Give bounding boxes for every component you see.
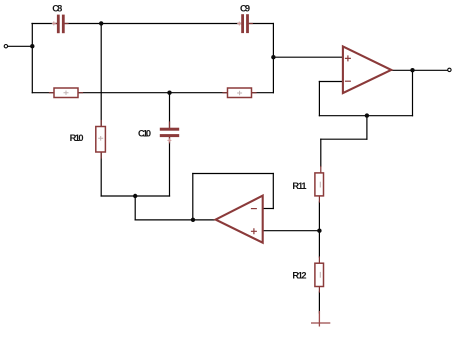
node lower rail C10 junction bbox=[167, 91, 171, 95]
wire U1 minus stub bbox=[319, 81, 343, 83]
wire left vertical rail bbox=[31, 24, 33, 93]
wire C10 rail lower bbox=[169, 137, 171, 196]
component pin leads bbox=[50, 24, 321, 293]
wire lower rail left segment bbox=[32, 92, 54, 94]
svg-text:R10: R10 bbox=[70, 133, 84, 143]
resistor R10 bbox=[96, 127, 106, 153]
node R11 R12 junction bbox=[317, 229, 321, 233]
wire branch down from node bbox=[134, 196, 136, 220]
op-amp U1 bbox=[343, 46, 391, 93]
resistor R (left horizontal) bbox=[54, 88, 78, 98]
wire branch left to R11 rail bbox=[321, 138, 367, 140]
wire R10 rail upper bbox=[100, 24, 102, 127]
wire lower rail middle segment bbox=[78, 92, 228, 94]
node U1 output junction bbox=[410, 68, 414, 72]
capacitor C10 bbox=[160, 128, 179, 143]
wire U2 feedback top bbox=[193, 173, 273, 175]
wire branch down from feedback bbox=[366, 116, 368, 140]
wire top rail C9 to right corner bbox=[249, 23, 274, 25]
node U2 output junction bbox=[191, 218, 195, 222]
wire right vertical rail bbox=[272, 24, 274, 93]
input terminal bbox=[4, 45, 7, 48]
node top C8-C9 junction bbox=[99, 21, 103, 25]
wire U2 feedback right vertical bbox=[272, 174, 274, 209]
wire bottom horizontal R10-C10 bbox=[101, 195, 169, 197]
ground bbox=[311, 311, 330, 327]
resistor R (right horizontal) bbox=[228, 88, 252, 98]
wire U2 minus stub bbox=[263, 208, 274, 210]
wire R12 bottom to ground bbox=[318, 292, 320, 313]
node bottom wire junction bbox=[133, 194, 137, 198]
wire C10 rail upper bbox=[169, 93, 171, 128]
wire top rail left of C8 bbox=[32, 23, 58, 25]
wire output down vertical bbox=[412, 70, 414, 115]
resistor R12 bbox=[315, 263, 324, 286]
wire R11 bottom to node bbox=[318, 202, 320, 231]
wire branch to U2 output bbox=[135, 219, 216, 221]
wire rail to R11 top bbox=[320, 139, 322, 166]
node U1 feedback junction bbox=[365, 113, 369, 117]
wire R10 rail lower bbox=[100, 152, 102, 196]
node input junction bbox=[30, 44, 34, 48]
node right rail to U1 junction bbox=[271, 55, 275, 59]
wire U1 feedback bottom bbox=[319, 115, 412, 117]
svg-text:R12: R12 bbox=[292, 270, 306, 280]
svg-text:R11: R11 bbox=[292, 181, 306, 191]
svg-text:C8: C8 bbox=[52, 3, 62, 13]
capacitor C8 bbox=[52, 15, 65, 34]
capacitor C9 bbox=[237, 14, 249, 33]
wire to U1 plus input bbox=[273, 56, 343, 58]
svg-text:C10: C10 bbox=[138, 128, 151, 138]
wire U2 plus input bbox=[263, 230, 320, 232]
wire top rail C8 to C9 bbox=[65, 23, 242, 25]
resistor R11 bbox=[315, 173, 324, 196]
wire node to R12 top bbox=[318, 231, 320, 257]
wire U1 output bbox=[391, 69, 448, 71]
wire lower rail right segment bbox=[251, 92, 273, 94]
wire input lead bbox=[8, 45, 33, 47]
op-amp U2 bbox=[216, 196, 263, 243]
output terminal bbox=[448, 68, 451, 71]
wire U1 feedback left vertical bbox=[318, 82, 320, 116]
svg-text:C9: C9 bbox=[240, 3, 250, 13]
wire U2 feedback left vertical bbox=[192, 174, 194, 220]
